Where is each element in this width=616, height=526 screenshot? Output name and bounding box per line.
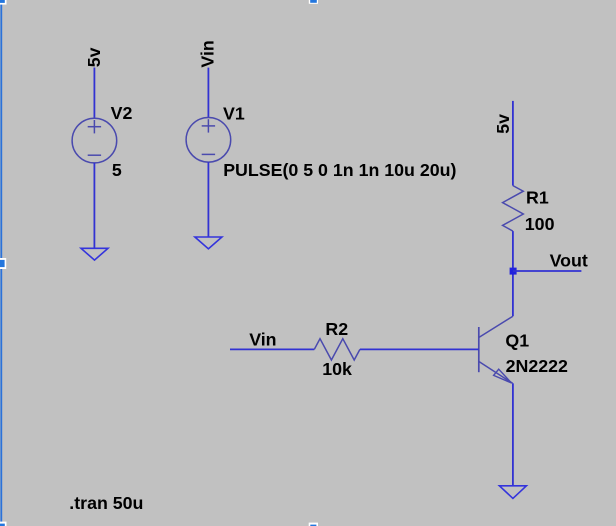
svg-text:Vin: Vin bbox=[249, 330, 276, 350]
wire V2 bottom bbox=[93, 163, 95, 248]
wire R1 to node bbox=[512, 231, 514, 316]
svg-text:R2: R2 bbox=[325, 319, 348, 339]
crop handle top-middle bbox=[309, 0, 318, 4]
ground below Q1 bbox=[499, 486, 526, 499]
crop handle top-left bbox=[0, 0, 7, 5]
svg-text:100: 100 bbox=[525, 214, 555, 234]
svg-text:10k: 10k bbox=[322, 359, 352, 379]
V2 plus sign bbox=[88, 120, 101, 133]
transistor Q1 emitter diagonal bbox=[479, 362, 513, 384]
voltage source V1 circle bbox=[186, 118, 231, 163]
svg-text:.tran 50u: .tran 50u bbox=[69, 493, 143, 513]
transistor Q1 base bar bbox=[478, 327, 480, 372]
svg-text:Q1: Q1 bbox=[505, 331, 529, 351]
wire Vin to R2 bbox=[230, 348, 314, 350]
V1 plus sign bbox=[202, 119, 215, 132]
resistor R2 zigzag bbox=[314, 339, 360, 360]
svg-text:5v: 5v bbox=[84, 47, 104, 67]
svg-text:Vin: Vin bbox=[197, 40, 217, 67]
svg-text:R1: R1 bbox=[526, 187, 549, 207]
crop handle bottom-middle bbox=[309, 523, 318, 526]
wire R2 to Q1 base bbox=[360, 348, 479, 350]
V2 minus sign bbox=[88, 154, 101, 156]
svg-text:2N2222: 2N2222 bbox=[506, 356, 568, 376]
wire V1 top bbox=[207, 68, 209, 118]
svg-text:V1: V1 bbox=[223, 103, 245, 123]
V1 minus sign bbox=[202, 153, 215, 155]
wire node to Vout bbox=[513, 270, 581, 272]
wire 5v to R1 bbox=[512, 101, 514, 186]
crop selection left edge line bbox=[0, 0, 2, 526]
svg-text:Vout: Vout bbox=[550, 251, 588, 271]
transistor Q1 collector diagonal bbox=[479, 316, 513, 337]
voltage source V2 circle bbox=[72, 118, 117, 163]
resistor R1 zigzag bbox=[503, 186, 524, 232]
transistor Q1 emitter arrow bbox=[494, 369, 512, 383]
svg-text:V2: V2 bbox=[111, 103, 133, 123]
svg-text:5v: 5v bbox=[493, 114, 513, 134]
crop handle bottom-left bbox=[0, 522, 7, 526]
node Vout junction square bbox=[510, 268, 517, 275]
ground below V1 bbox=[195, 237, 222, 249]
wire V2 top bbox=[93, 68, 95, 119]
crop handle left-middle bbox=[0, 258, 6, 269]
svg-text:5: 5 bbox=[112, 160, 122, 180]
svg-text:PULSE(0 5 0 1n 1n 10u 20u): PULSE(0 5 0 1n 1n 10u 20u) bbox=[223, 160, 456, 180]
ground below V2 bbox=[81, 248, 108, 260]
wire Q1 emitter down bbox=[512, 383, 514, 486]
wire V1 bottom bbox=[207, 162, 209, 237]
